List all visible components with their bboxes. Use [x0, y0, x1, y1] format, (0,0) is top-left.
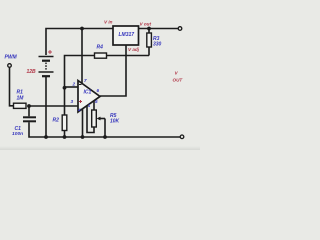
- node R3 top junction: [147, 27, 151, 31]
- op-amp IC1 triangle: [78, 81, 100, 113]
- node battery ground junction: [44, 135, 48, 139]
- svg-text:330: 330: [153, 42, 162, 48]
- node pin4 ground junction: [81, 135, 85, 139]
- node top bus junction: [80, 27, 84, 31]
- svg-text:100n: 100n: [12, 131, 23, 137]
- svg-text:5: 5: [95, 99, 98, 104]
- svg-text:OUT: OUT: [173, 78, 184, 83]
- svg-text:1M: 1M: [17, 96, 25, 102]
- wire top bus battery+ to LM317 Vin: [46, 29, 113, 56]
- battery plus sign: [48, 50, 52, 54]
- resistor R3: [148, 29, 150, 34]
- potentiometer R5 wiper arrow: [100, 118, 106, 120]
- svg-text:4: 4: [77, 108, 81, 113]
- labels red: [27, 20, 184, 83]
- wire LM317 Vout to terminal: [139, 28, 179, 30]
- svg-text:3: 3: [71, 99, 74, 104]
- pin labels: [71, 78, 100, 113]
- svg-text:PWM: PWM: [5, 55, 18, 61]
- op-amp input polarity plus: [79, 100, 82, 103]
- wire pin 4 to ground: [82, 109, 84, 137]
- svg-text:R4: R4: [97, 45, 104, 51]
- resistor R2: [62, 115, 67, 131]
- wire pin 5: [93, 101, 95, 110]
- wire feedback row R4 right to R3 bottom: [107, 55, 150, 57]
- svg-text:V adj: V adj: [128, 47, 140, 52]
- capacitor C1: [28, 106, 30, 116]
- ground bus wire (terminal): [180, 135, 184, 139]
- resistor R4: [95, 53, 107, 58]
- svg-text:V out: V out: [140, 22, 152, 27]
- IC U1 LM317 box: [113, 26, 139, 45]
- potentiometer R5 body: [92, 110, 97, 127]
- svg-text:LM317: LM317: [119, 32, 135, 38]
- resistor R1: [14, 103, 27, 108]
- node inverting input junction: [63, 86, 67, 90]
- terminal PWM input: [8, 64, 12, 68]
- wire R4 left to inverting node: [65, 56, 95, 116]
- node wiper ground junction: [103, 135, 107, 139]
- svg-text:IC1: IC1: [84, 90, 92, 96]
- wire pin 2: [65, 86, 79, 88]
- node A junction R1 C1: [27, 104, 31, 108]
- svg-text:2: 2: [72, 82, 76, 87]
- wire wiper to ground: [104, 119, 106, 138]
- svg-text:1: 1: [88, 103, 91, 108]
- wire pin 3 from node A: [29, 105, 78, 107]
- wire battery- to ground bus: [45, 76, 47, 137]
- wire pin 1 to R5 bottom: [87, 106, 94, 133]
- wire LM317 adj down to op-amp output: [100, 45, 126, 96]
- node R2 ground junction: [63, 135, 67, 139]
- wire pin 7 supply: [81, 29, 83, 85]
- labels blue: [5, 32, 162, 137]
- svg-text:12В: 12В: [27, 69, 37, 75]
- svg-text:V in: V in: [104, 20, 113, 25]
- op-amp input polarity minus: [79, 84, 81, 85]
- svg-text:10K: 10K: [110, 119, 120, 125]
- svg-text:R2: R2: [53, 118, 60, 124]
- svg-text:7: 7: [84, 78, 87, 83]
- svg-text:6: 6: [97, 88, 100, 93]
- battery B1 12B: [39, 57, 54, 77]
- wire C1 to ground bus: [29, 122, 180, 137]
- terminal Vout: [178, 27, 182, 31]
- wire PWM to R1: [10, 67, 14, 106]
